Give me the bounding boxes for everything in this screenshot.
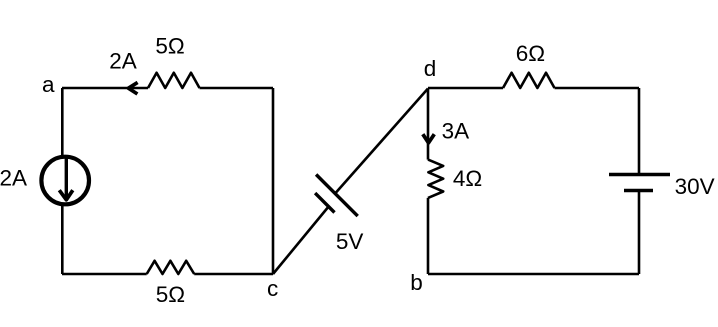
battery V1 short plate (negative) (315, 193, 334, 212)
svg-text:3A: 3A (442, 119, 470, 144)
wire: top of left loop, node a to resistor R1 (62, 87, 148, 90)
current source I1 circle (41, 157, 89, 205)
wire: right side of left loop (272, 88, 275, 274)
svg-text:d: d (424, 56, 437, 81)
svg-text:5V: 5V (336, 229, 364, 254)
wire: diagonal from battery V1 to node d (336, 89, 428, 193)
svg-text:a: a (42, 72, 55, 97)
current arrow 2A on top wire (pointing left) (128, 82, 137, 94)
svg-text:5Ω: 5Ω (156, 282, 185, 307)
wire: left side of left loop, upper segment (a to current source) (61, 88, 64, 157)
battery V2 long plate (positive) (609, 173, 670, 176)
wire: left side of right loop, resistor to node b (427, 198, 430, 274)
wire: top of right loop, node d to resistor R3 (428, 87, 503, 90)
svg-text:5Ω: 5Ω (155, 34, 184, 59)
wire: top of right loop, resistor to top-right corner (555, 87, 640, 90)
svg-text:4Ω: 4Ω (453, 166, 482, 191)
svg-text:b: b (410, 270, 423, 295)
wire: bottom of left loop, left part (62, 273, 147, 276)
wire: bottom of right loop, node b to bottom-right (428, 273, 639, 276)
wire: left side of right loop, node d to resistor R2 (427, 89, 430, 160)
svg-text:2A: 2A (109, 49, 137, 74)
wire: diagonal from node c to battery V1 (273, 208, 328, 275)
resistor 5ohm top (left loop) (148, 73, 200, 88)
resistor 6ohm top (right loop) (503, 73, 555, 88)
current arrow 3A arrowhead (down) on left side of right loop (423, 134, 435, 143)
wire: right side of right loop, battery to bottom-right corner (638, 191, 641, 275)
resistor 5ohm bottom (left loop) (147, 261, 195, 274)
wire: top of left loop, resistor to top-right corner (200, 87, 274, 90)
current source I1 arrowhead (down) (59, 190, 73, 200)
battery V2 short plate (negative) (624, 189, 653, 192)
svg-text:30V: 30V (675, 174, 715, 199)
svg-text:c: c (267, 276, 278, 301)
wire: right side of right loop, upper segment to battery V2 (638, 88, 641, 175)
current source I1 arrow shaft (65, 156, 68, 198)
wire: left side of left loop, lower segment (current source to bottom) (61, 204, 64, 274)
wire: bottom of left loop, resistor to node c (194, 273, 273, 276)
battery V1 long plate (positive) (316, 175, 358, 217)
svg-text:2A: 2A (0, 166, 27, 191)
resistor 4ohm vertical (right loop) (428, 160, 443, 198)
svg-text:6Ω: 6Ω (516, 41, 545, 66)
